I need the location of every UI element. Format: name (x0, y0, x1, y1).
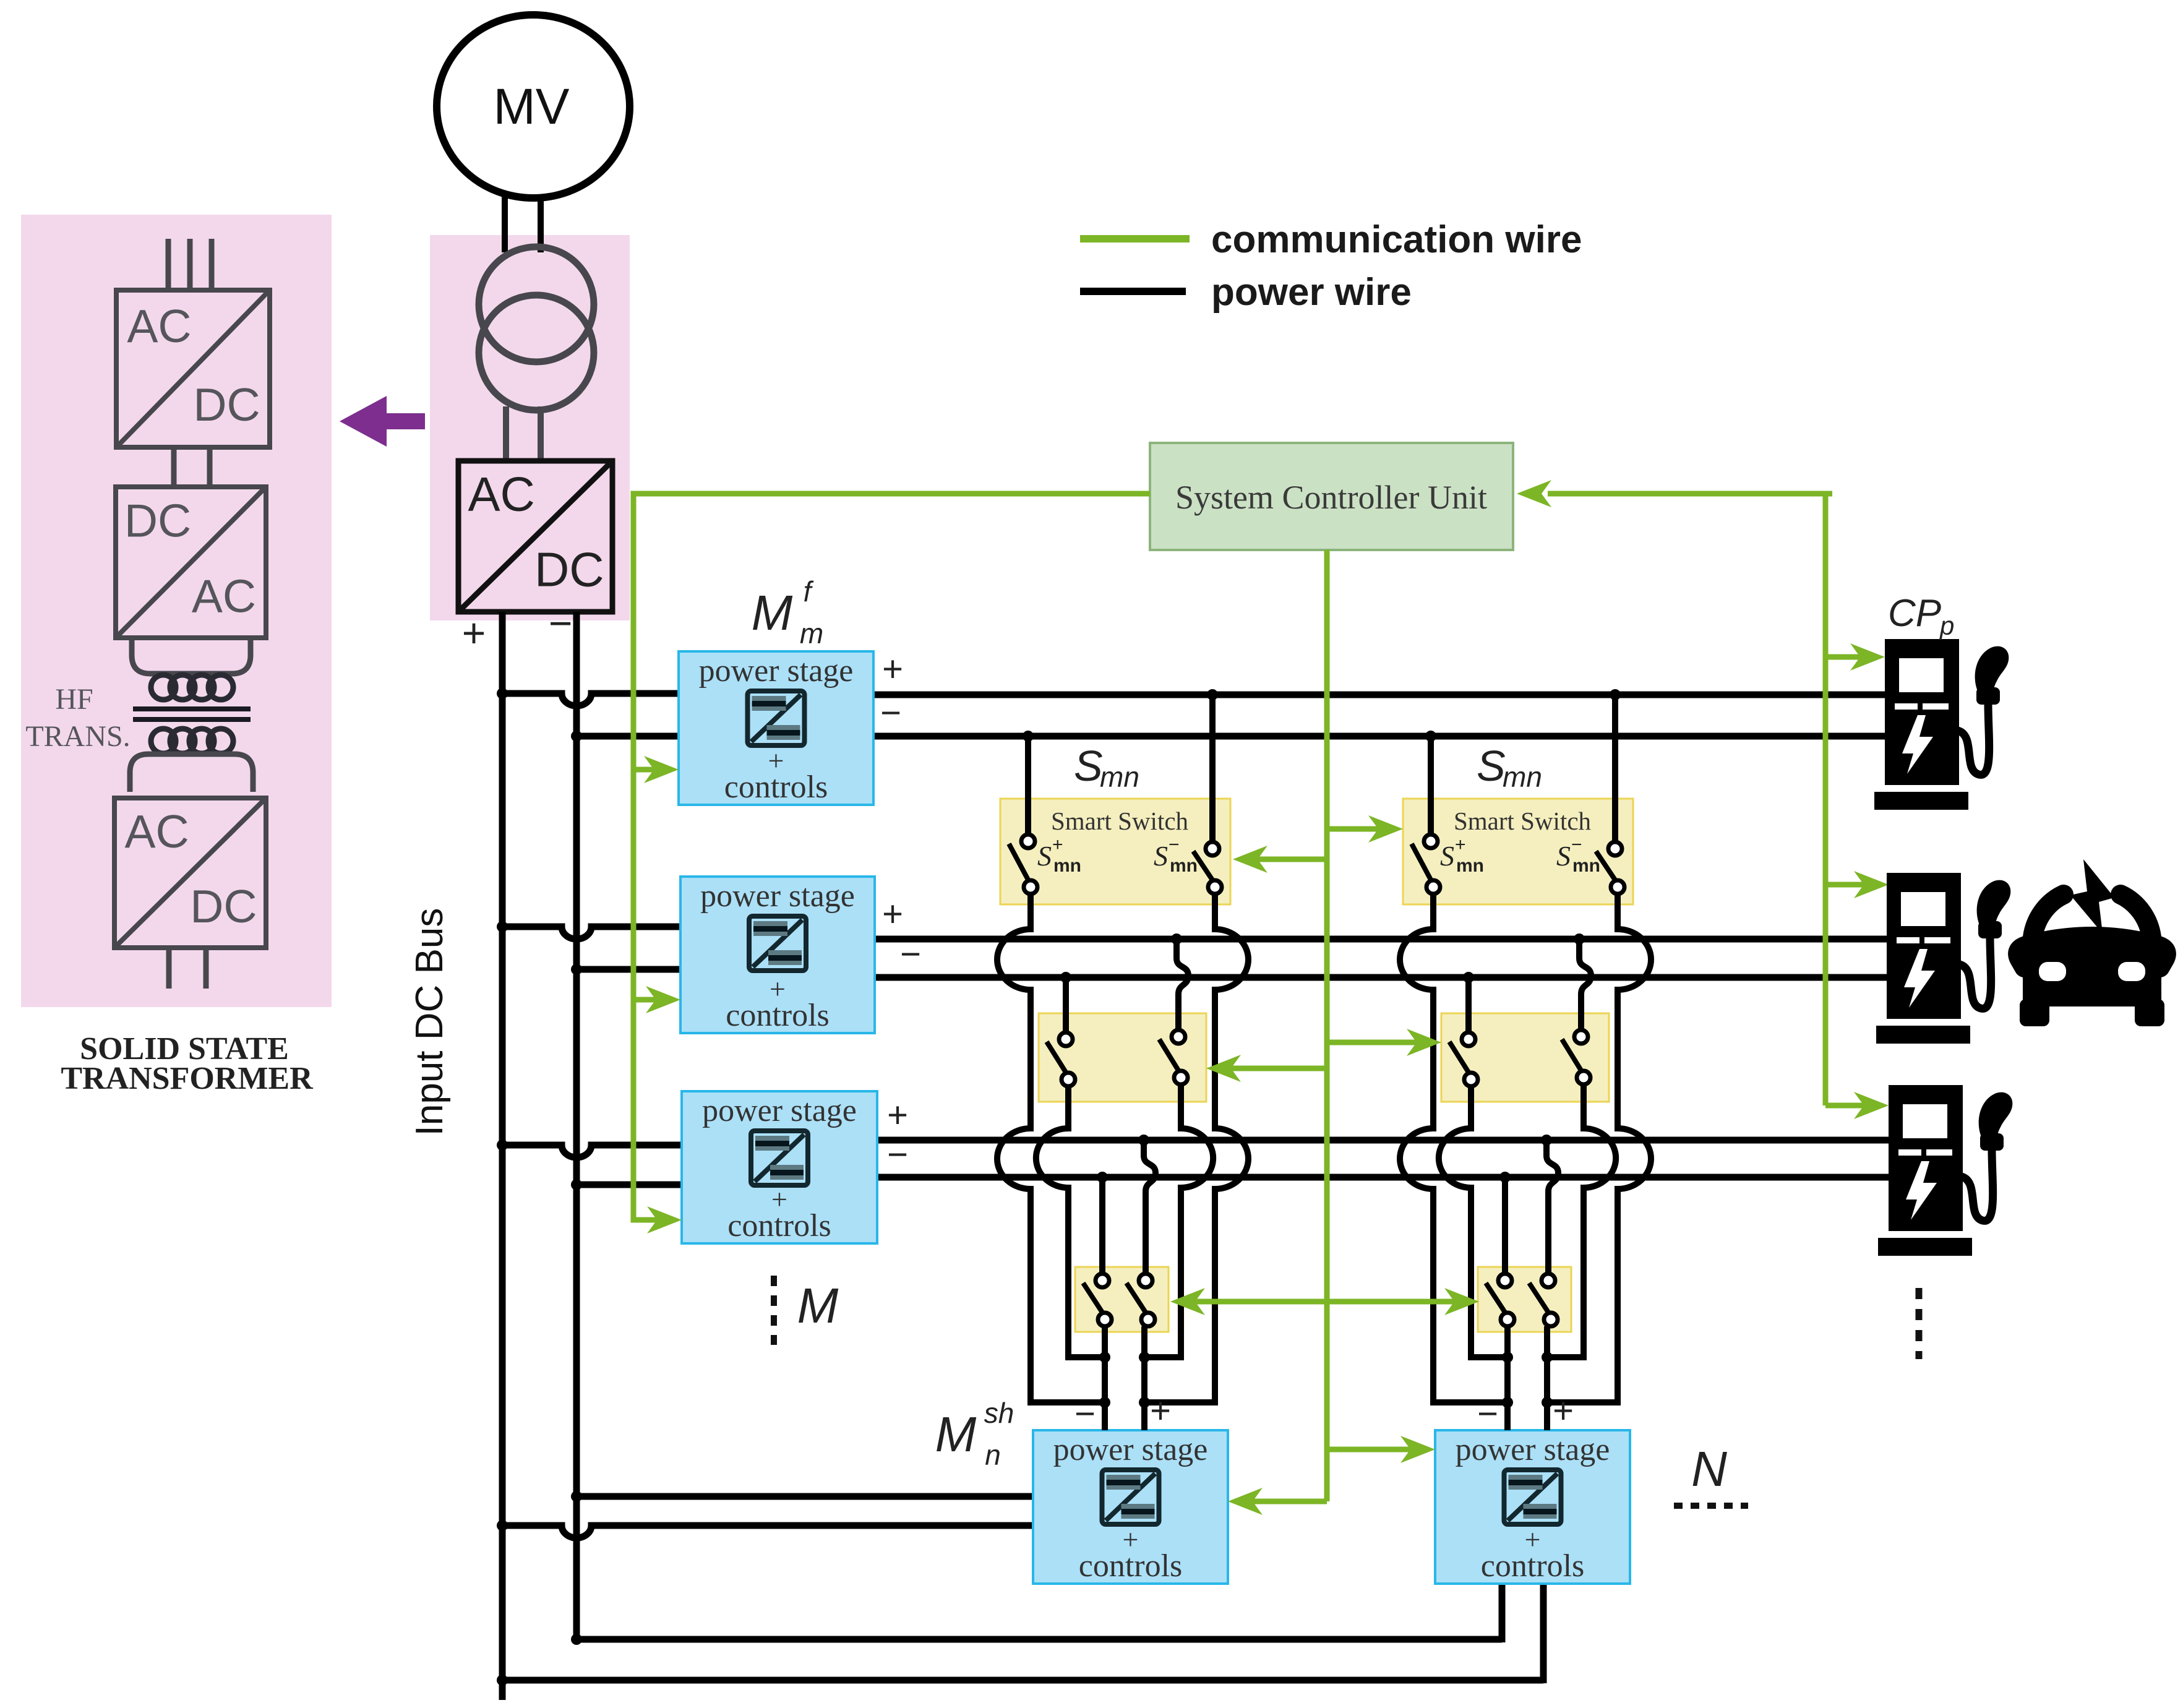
svg-text:+: + (1150, 1391, 1171, 1431)
row 1 + bus (873, 692, 1889, 698)
switch 3R 2 (1529, 1274, 1558, 1326)
svg-text:S: S (1037, 840, 1052, 872)
svg-text:S: S (1074, 742, 1103, 790)
HF transformer primary housing (132, 638, 251, 674)
svg-text:power stage: power stage (1053, 1432, 1208, 1467)
switch S-21 (1596, 842, 1624, 894)
svg-text:M: M (935, 1407, 977, 1462)
comm arrow into module 3 (647, 1206, 682, 1234)
shunt power stage module N2 (1435, 1430, 1630, 1584)
comm branch to S23 (right) (1327, 1299, 1472, 1305)
comm branch to S12 (left) (1216, 1066, 1327, 1071)
switch 2L 1 (1047, 1032, 1075, 1086)
wire row3+ to switch3R 2 (1546, 1140, 1558, 1273)
switch 2R 1 (1159, 1030, 1188, 1084)
switch S-21 label (1556, 835, 1600, 876)
svg-text:sh: sh (984, 1397, 1014, 1429)
AC/DC converter (SST stage 3) (114, 798, 266, 948)
svg-text:power stage: power stage (1456, 1432, 1610, 1467)
feed wire bus- to module 3 (577, 1182, 682, 1188)
column wire right outer 2 (1547, 894, 1651, 1402)
return wire bus+ from shunt module 2 (502, 1677, 1543, 1684)
switch 3R 1 (1126, 1274, 1155, 1326)
comm wire controller to left trunk (633, 494, 1150, 1220)
comm branch to S21 (right) (1327, 826, 1396, 832)
shunt power stage module N1 (1033, 1430, 1228, 1584)
svg-text:controls: controls (726, 998, 830, 1033)
svg-text:mn: mn (1572, 856, 1600, 876)
column wire right outer 1 (1144, 894, 1248, 1402)
svg-text:−: − (880, 693, 901, 733)
svg-text:TRANSFORMER: TRANSFORMER (61, 1061, 314, 1096)
svg-text:Smart Switch: Smart Switch (1454, 807, 1591, 835)
svg-text:−: − (887, 1135, 908, 1175)
SST block background (430, 235, 630, 620)
svg-text:controls: controls (727, 1208, 831, 1243)
svg-text:mn: mn (1456, 856, 1484, 876)
svg-text:communication wire: communication wire (1211, 218, 1582, 261)
wire row3- to switch3L 2 (1502, 1177, 1508, 1273)
svg-text:DC: DC (190, 880, 257, 932)
svg-text:−: − (1074, 1394, 1096, 1434)
legend communication wire sample (1080, 235, 1190, 242)
power stage module M2 (feeder) (680, 877, 875, 1033)
comm arrow into pile 2 (1825, 882, 1881, 888)
return wire bus- from shunt module 2 (577, 1636, 1502, 1643)
svg-text:N: N (1691, 1441, 1727, 1496)
terminal wire + 1 (1141, 1326, 1147, 1430)
svg-text:+: + (882, 894, 903, 934)
feed wire bus+ to module 1 (502, 693, 679, 706)
switch S+11 label (1037, 835, 1081, 876)
column wire left inner 1 (1036, 1086, 1105, 1357)
feed wire bus- to module 2 (577, 966, 680, 973)
comm arrow into module 1 (633, 767, 672, 773)
switch S+11 (1009, 835, 1037, 894)
svg-text:power stage: power stage (700, 878, 855, 914)
charge pile CP2 (1876, 873, 2010, 1044)
svg-text:controls: controls (724, 770, 828, 805)
wire row1+ to switch S-2 (1612, 695, 1618, 842)
comm wire piles to controller (1548, 491, 1832, 497)
shunt module 2 - drop wire (1499, 1582, 1506, 1642)
svg-text:HF: HF (55, 683, 93, 716)
comm arrow into module 2 (633, 997, 672, 1003)
svg-text:M: M (752, 585, 793, 640)
smart switch box S13 (1075, 1267, 1169, 1332)
feed wire bus+ to module 2 (502, 927, 680, 939)
DC/AC converter (SST stage 2) (116, 487, 266, 638)
svg-text:mn: mn (1100, 761, 1139, 793)
svg-text:Smart Switch: Smart Switch (1051, 807, 1188, 835)
svg-text:S: S (1154, 840, 1168, 872)
smart switch box S21 (1403, 799, 1633, 904)
smart switch box S22 (1441, 1013, 1609, 1102)
svg-text:−: − (1477, 1394, 1498, 1434)
row 1 - bus (873, 733, 1889, 740)
wire row2+ to switch2R 2 (1579, 939, 1591, 1030)
svg-text:mn: mn (1503, 761, 1542, 793)
comm wire right trunk (1823, 491, 1829, 1105)
comm arrow into pile 3 (1825, 1103, 1881, 1109)
svg-text:S: S (1477, 742, 1506, 790)
comm wire central trunk (1324, 550, 1330, 1501)
smart switch box S12 (1039, 1013, 1206, 1102)
switch 2R 2 (1562, 1030, 1590, 1084)
terminal wire - 1 (1102, 1326, 1108, 1430)
svg-text:n: n (985, 1439, 1001, 1471)
N dashed underline (1674, 1503, 1748, 1509)
svg-text:mn: mn (1170, 856, 1198, 876)
power stage module M3 (feeder) (682, 1091, 877, 1243)
EV car icon (2008, 859, 2176, 1026)
comm branch to S13 (left) (1180, 1299, 1327, 1305)
zoom arrow (purple) (340, 396, 425, 447)
svg-text:power stage: power stage (699, 653, 854, 689)
svg-text:System Controller Unit: System Controller Unit (1175, 479, 1487, 516)
svg-text:power wire: power wire (1211, 271, 1412, 314)
row 2 + bus (875, 936, 1892, 943)
svg-text:+: + (887, 1095, 908, 1135)
svg-text:−: − (1571, 835, 1582, 855)
svg-text:+: + (1553, 1391, 1574, 1431)
comm arrow into pile 1 (1825, 654, 1877, 660)
shunt module 2 + drop wire (1540, 1582, 1547, 1683)
row 3 + bus (877, 1137, 1892, 1144)
row 3 - bus (877, 1174, 1892, 1181)
wire row2- to switch2L 1 (1063, 977, 1069, 1032)
switch S-11 label (1154, 835, 1198, 876)
svg-text:controls: controls (1079, 1548, 1183, 1584)
switch S+21 label (1440, 835, 1484, 876)
svg-text:TRANS.: TRANS. (25, 720, 130, 753)
charge pile CP1 (1874, 639, 2009, 810)
svg-text:DC: DC (124, 495, 191, 547)
svg-text:S: S (1440, 840, 1454, 872)
row 2 - bus (875, 974, 1892, 981)
input DC bus &#8722; rail (573, 612, 580, 1639)
svg-text:controls: controls (1481, 1548, 1585, 1584)
input DC bus + rail (499, 612, 506, 1700)
comm branch to S11 (left) (1243, 857, 1327, 862)
LF transformer symbol (479, 247, 594, 410)
wire row1- to switch S+2 (1428, 736, 1434, 835)
MV grid circle (437, 15, 630, 198)
comm branch to shunt module 2 (1327, 1447, 1428, 1453)
svg-text:mn: mn (1053, 856, 1081, 876)
svg-text:+: + (462, 610, 486, 656)
svg-text:power stage: power stage (702, 1093, 857, 1128)
pile ellipsis dots (1916, 1288, 1923, 1359)
M ellipsis dots (771, 1276, 777, 1345)
smart switch box S11 (1000, 799, 1230, 904)
DC link wires (174, 447, 210, 489)
svg-text:DC: DC (193, 379, 260, 431)
svg-text:−: − (900, 934, 921, 974)
comm elbow to shunt module 1 (1238, 1499, 1327, 1504)
power stage module M1 (feeder) (679, 651, 873, 805)
svg-text:+: + (1052, 835, 1063, 855)
svg-text:DC: DC (534, 543, 604, 597)
column wire right inner 2 (1547, 1084, 1616, 1357)
switch 3L 1 (1083, 1274, 1112, 1326)
svg-text:−: − (549, 600, 573, 646)
transformer to rectifier wires (506, 406, 541, 463)
terminal wire + 2 (1544, 1326, 1550, 1430)
smart switch box S23 (1478, 1267, 1571, 1332)
HF transformer primary coil (151, 675, 233, 700)
svg-text:AC: AC (192, 570, 256, 622)
System Controller Unit box (1150, 443, 1513, 550)
wire row1- to switch S+1 (1025, 736, 1031, 835)
wire row3+ to switch3R 1 (1144, 1140, 1156, 1273)
column wire right inner 1 (1144, 1084, 1213, 1357)
svg-text:AC: AC (127, 300, 191, 352)
3-phase input lines (168, 239, 212, 292)
switch 3L 2 (1486, 1274, 1514, 1326)
legend power wire sample (1080, 288, 1186, 295)
AC/DC converter (SST stage 1) (116, 290, 270, 447)
svg-text:AC: AC (468, 467, 535, 521)
switch S-11 (1193, 842, 1222, 894)
column wire left inner 2 (1439, 1086, 1508, 1357)
column wire left outer 1 (997, 894, 1105, 1402)
wire row3- to switch3L 1 (1099, 1177, 1105, 1273)
svg-text:Input DC Bus: Input DC Bus (408, 908, 451, 1136)
feed wire bus+ to shunt module 1 (502, 1526, 1033, 1538)
svg-text:M: M (797, 1278, 839, 1333)
charge pile CP3 (1878, 1085, 2012, 1256)
svg-text:AC: AC (125, 805, 189, 857)
comm branch to S22 (right) (1327, 1040, 1434, 1045)
feed wire bus+ to module 3 (502, 1145, 682, 1157)
SST output wires (169, 948, 206, 989)
svg-text:p: p (1939, 611, 1954, 640)
HF transformer secondary coil (151, 729, 233, 753)
switch S+21 (1412, 835, 1440, 894)
wire row2- to switch2L 2 (1465, 977, 1472, 1032)
svg-text:+: + (882, 649, 903, 689)
svg-text:+: + (1455, 835, 1466, 855)
solid state transformer panel (21, 215, 332, 1007)
svg-text:m: m (800, 617, 823, 650)
terminal wire - 2 (1504, 1326, 1511, 1430)
feed wire bus- to shunt module 1 (577, 1493, 1033, 1500)
svg-text:CP: CP (1888, 592, 1941, 635)
MV to transformer wires (505, 196, 541, 252)
column wire left outer 2 (1400, 894, 1508, 1402)
feed wire bus- to module 1 (577, 733, 679, 740)
HF transformer core (133, 709, 251, 719)
switch 2L 2 (1449, 1032, 1478, 1086)
svg-text:MV: MV (494, 79, 570, 135)
wire row2+ to switch2R 1 (1177, 939, 1188, 1030)
HF transformer secondary housing (130, 754, 253, 792)
svg-text:S: S (1556, 840, 1571, 872)
wire row1+ to switch S-1 (1209, 695, 1216, 842)
AC/DC rectifier (458, 461, 612, 612)
svg-text:−: − (1169, 835, 1180, 855)
